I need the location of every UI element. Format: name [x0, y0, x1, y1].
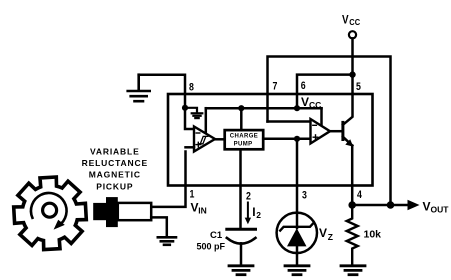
wire pin 4 emitter down to output node	[351, 146, 354, 205]
node VCC internal label	[301, 95, 321, 110]
svg-text:V: V	[423, 199, 431, 213]
current arrow I2	[247, 203, 249, 220]
U1B plus sign	[313, 135, 318, 140]
junction dot pin 6 rail	[294, 105, 300, 111]
svg-text:Z: Z	[328, 232, 333, 242]
junction dot VCC rail	[349, 71, 355, 77]
op-amp U1B comparator	[311, 119, 331, 144]
arrow VOUT head	[408, 200, 420, 210]
svg-text:PUMP: PUMP	[234, 141, 253, 147]
node VCC terminal circle	[349, 31, 356, 38]
svg-text:6: 6	[301, 80, 306, 92]
svg-text:C1: C1	[210, 230, 223, 241]
wire power stub comparator U1B	[320, 108, 323, 126]
junction dot right rail output	[387, 201, 395, 209]
gear rotation arrow	[31, 193, 67, 226]
wire pin 6 / pin 3 vertical	[296, 139, 299, 265]
pickup magnet body	[93, 203, 118, 220]
node VOUT label	[423, 199, 450, 214]
U1B minus sign	[313, 124, 317, 126]
ground pickup	[158, 237, 176, 245]
pickup coil body	[118, 203, 151, 220]
junction dot pin 3 node	[294, 136, 300, 142]
wire top rail pin7 to right side	[268, 57, 391, 206]
junction dot pin 4 output	[348, 201, 356, 209]
svg-text:2: 2	[256, 210, 261, 220]
svg-text:PICKUP: PICKUP	[96, 181, 133, 191]
svg-text:I: I	[252, 205, 255, 219]
wire pin 8 from ground	[139, 75, 185, 108]
node VZ label	[319, 226, 333, 242]
wire pin 1 to pickup	[151, 152, 186, 207]
wire VCC rail to pin 6	[297, 75, 353, 109]
svg-text:5: 5	[356, 81, 361, 93]
wire U1A output to charge pump	[215, 138, 225, 141]
zener VZ internal wires	[296, 213, 299, 228]
op-amp U1A comparator with hysteresis	[194, 127, 215, 152]
ground internal small	[185, 108, 202, 118]
junction dot charge pump top	[238, 105, 244, 111]
wire VCC stem down to junction	[351, 38, 354, 74]
IC box	[168, 94, 373, 186]
svg-text:7: 7	[273, 81, 278, 93]
wire pin 7 to U1B minus input	[268, 120, 311, 123]
capacitor C1 top plate	[227, 228, 256, 231]
transistor Q1 base bar	[341, 122, 344, 139]
ground C1	[229, 266, 253, 275]
svg-text:VARIABLE: VARIABLE	[90, 146, 140, 156]
ground top-left	[128, 75, 150, 102]
svg-text:8: 8	[189, 82, 194, 94]
svg-text:500 pF: 500 pF	[197, 242, 226, 252]
svg-text:OUT: OUT	[431, 205, 450, 215]
wire pin 5 vcc to collector	[351, 75, 354, 94]
zener diode VZ circle	[277, 213, 317, 253]
wire pin 2 charge pump bottom to C1	[239, 149, 242, 228]
U1A minus sign	[196, 132, 200, 134]
svg-text:MAGNETIC: MAGNETIC	[89, 170, 141, 180]
resistor R1 10k	[347, 205, 358, 266]
charge pump text	[230, 133, 258, 147]
gear hub	[43, 203, 57, 217]
svg-text:CC: CC	[349, 17, 360, 27]
transistor Q1 emitter arrowhead	[345, 139, 353, 146]
charge pump U2 box	[225, 130, 264, 149]
wire charge pump output to U1B plus input	[263, 138, 310, 141]
svg-text:1: 1	[190, 189, 195, 201]
gear wheel	[14, 177, 87, 250]
svg-text:10k: 10k	[364, 228, 382, 240]
wire U1B output to transistor base	[330, 130, 342, 133]
capacitor C1 label	[197, 230, 226, 252]
node I2 label	[252, 205, 261, 220]
zener VZ cathode bar	[280, 223, 313, 230]
transistor Q1 emitter	[343, 137, 352, 146]
node VCC terminal label	[342, 12, 360, 27]
wire output row to arrow	[352, 204, 408, 207]
wire charge pump top stub	[240, 108, 243, 130]
zener VZ anode triangle	[287, 228, 307, 246]
U1A plus sign	[196, 142, 201, 147]
pickup text block	[82, 146, 148, 191]
wire C1 to ground	[240, 243, 243, 265]
junction dot pin 8	[182, 105, 188, 111]
wire coil lower terminal to ground	[151, 217, 167, 236]
svg-text:3: 3	[302, 190, 307, 202]
svg-text:CHARGE: CHARGE	[230, 133, 258, 139]
svg-text:IN: IN	[198, 206, 207, 216]
transistor Q1 collector	[343, 94, 353, 125]
wire internal VCC rail	[206, 107, 322, 110]
wire U1A plus input elbow	[186, 146, 195, 149]
svg-text:4: 4	[357, 189, 363, 201]
svg-text:RELUCTANCE: RELUCTANCE	[82, 158, 148, 168]
capacitor C1 curved plate	[227, 238, 256, 244]
ground zener	[285, 266, 309, 275]
ground resistor R1	[341, 266, 365, 275]
svg-text:V: V	[319, 226, 327, 240]
wire pin8 to comparator U1A minus input	[185, 108, 194, 129]
svg-text:V: V	[342, 12, 349, 26]
node VIN label	[191, 200, 207, 215]
svg-text:2: 2	[246, 191, 251, 203]
wire power stub comparator U1A	[205, 108, 208, 133]
U1A hysteresis symbol	[198, 136, 208, 143]
